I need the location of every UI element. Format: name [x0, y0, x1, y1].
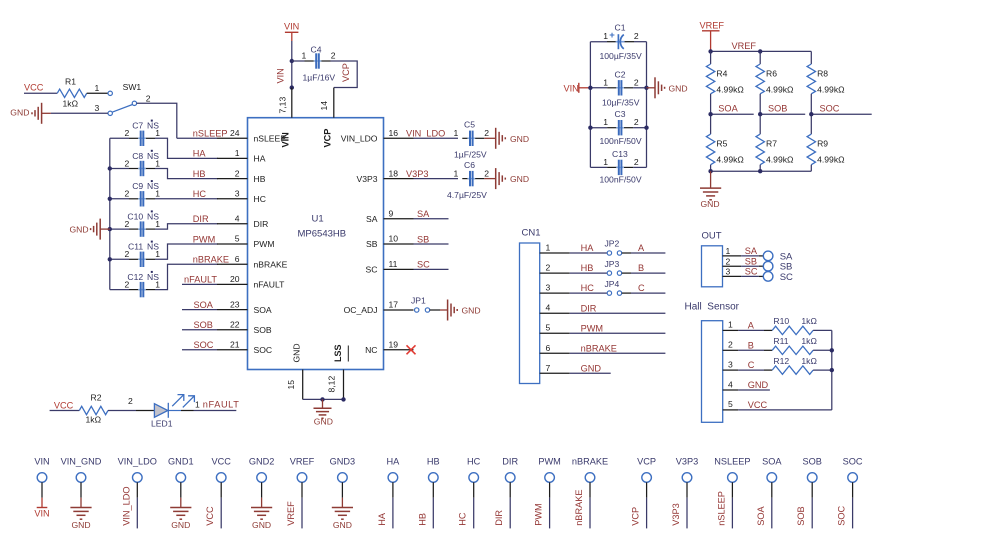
pin 21 SOC of U1: [217, 340, 272, 356]
svg-text:2: 2: [125, 249, 130, 259]
wire bottom rail: [711, 170, 812, 172]
svg-text:Hall Sensor: Hall Sensor: [685, 302, 740, 313]
svg-text:1: 1: [454, 168, 459, 178]
svg-text:VREF: VREF: [700, 21, 725, 31]
svg-text:4: 4: [546, 303, 551, 313]
connector OUT body: [702, 231, 723, 287]
svg-text:GND2: GND2: [249, 457, 275, 467]
svg-text:7,13: 7,13: [278, 97, 288, 114]
ground GND at JP1: [448, 300, 481, 321]
resistor R12: [772, 356, 813, 374]
test point GND2: [249, 457, 275, 508]
svg-text:GND: GND: [748, 380, 769, 390]
resistor R2: [79, 393, 108, 415]
svg-text:nBRAKE: nBRAKE: [581, 343, 617, 353]
wire CN1 to JP2: [570, 252, 608, 254]
svg-text:PWM: PWM: [534, 503, 544, 525]
test point VIN: [34, 457, 49, 498]
svg-text:nFAULT: nFAULT: [203, 400, 240, 410]
pin 2 of OUT: [723, 256, 742, 266]
svg-text:R4: R4: [716, 68, 727, 78]
svg-text:OC_ADJ: OC_ADJ: [344, 305, 378, 315]
connector CN1 body: [520, 228, 541, 384]
svg-text:1: 1: [726, 246, 731, 256]
svg-text:3: 3: [726, 267, 731, 277]
test point nBRAKE: [572, 457, 608, 529]
svg-text:R2: R2: [91, 393, 102, 403]
svg-text:GND: GND: [252, 520, 271, 530]
no-connect X at pin 19: [407, 345, 416, 354]
resistor R10: [772, 316, 813, 334]
pin 24 nSLEEP of U1: [217, 128, 286, 144]
svg-text:HC: HC: [193, 189, 207, 199]
capacitor C1 (polarized): [590, 22, 646, 49]
wire VREF rail: [711, 50, 812, 52]
svg-text:1: 1: [195, 399, 200, 409]
node pullup bus at R11: [830, 348, 834, 352]
svg-text:1: 1: [235, 148, 240, 158]
svg-text:SOB: SOB: [768, 104, 787, 114]
pin 5 PWM of U1: [217, 234, 275, 250]
svg-text:PWM: PWM: [581, 323, 603, 333]
svg-text:GND: GND: [10, 108, 29, 118]
power port VIN at input caps: [564, 83, 591, 94]
svg-text:GND: GND: [333, 520, 352, 530]
wire JP2 to A: [622, 252, 666, 254]
svg-text:2: 2: [634, 31, 639, 41]
svg-text:HA: HA: [193, 149, 207, 159]
svg-text:1: 1: [728, 320, 733, 330]
svg-text:HA: HA: [581, 243, 595, 253]
pin 5 of CN1: [540, 323, 570, 334]
svg-text:R1: R1: [65, 77, 76, 87]
svg-text:SA: SA: [745, 246, 758, 256]
test point V3P3: [676, 457, 698, 529]
capacitor C13: [590, 149, 646, 175]
node VIN at pin 7,13: [290, 85, 294, 89]
svg-text:SOB: SOB: [796, 506, 806, 525]
svg-text:HC: HC: [581, 283, 595, 293]
svg-text:U1: U1: [312, 214, 324, 225]
power port VIN at test point VIN: [34, 498, 49, 519]
svg-text:SC: SC: [780, 272, 793, 283]
node VIN at C4 tap: [290, 59, 294, 63]
wire R1 to SW1 pin 1: [87, 83, 108, 93]
svg-text:A: A: [748, 321, 755, 331]
svg-text:GND: GND: [70, 224, 89, 234]
wire VIN_LDO to C5: [414, 137, 459, 139]
svg-text:R6: R6: [766, 68, 777, 78]
svg-text:1kΩ: 1kΩ: [801, 356, 817, 366]
wire DIR from CN1: [570, 312, 666, 314]
svg-text:5: 5: [728, 399, 733, 409]
svg-text:HB: HB: [581, 263, 594, 273]
svg-text:1: 1: [155, 158, 160, 168]
svg-text:VCP: VCP: [637, 457, 656, 467]
svg-text:1µF/25V: 1µF/25V: [454, 150, 487, 160]
output terminal SC: [763, 272, 773, 282]
svg-text:nSLEEP: nSLEEP: [193, 129, 228, 139]
test point GND1: [168, 457, 194, 508]
capacitor C6: [454, 160, 490, 186]
svg-text:SC: SC: [417, 260, 430, 270]
wire SOA tap: [711, 113, 754, 115]
svg-text:nSLEEP: nSLEEP: [716, 491, 726, 526]
svg-text:7: 7: [546, 363, 551, 373]
svg-text:2: 2: [634, 117, 639, 127]
ground GND at C6: [496, 168, 529, 189]
pin 7,13 VIN of U1: [278, 88, 292, 148]
svg-text:GND: GND: [171, 520, 190, 530]
svg-text:2: 2: [484, 128, 489, 138]
svg-text:SB: SB: [745, 256, 757, 266]
svg-text:2: 2: [146, 94, 151, 104]
svg-text:4.99kΩ: 4.99kΩ: [766, 85, 794, 95]
wire SOC: [182, 349, 217, 351]
svg-text:C7: C7: [132, 121, 143, 131]
node VREF rail middle: [758, 49, 762, 53]
svg-text:VCC: VCC: [54, 400, 74, 410]
ground GND at test point GND3: [332, 508, 353, 531]
svg-text:SOC: SOC: [843, 457, 863, 467]
node C3 right bus: [644, 126, 648, 130]
node pullup bus at R12: [830, 368, 834, 372]
test point DIR: [502, 457, 518, 529]
svg-text:VCP: VCP: [323, 129, 333, 148]
svg-text:1: 1: [155, 249, 160, 259]
svg-text:100nF/50V: 100nF/50V: [600, 174, 642, 184]
svg-text:SOB: SOB: [802, 457, 821, 467]
svg-text:DIR: DIR: [494, 510, 504, 526]
wire VCC to R2: [50, 410, 80, 412]
wire SB to output circle: [741, 265, 763, 267]
svg-text:C8: C8: [132, 151, 143, 161]
svg-text:3: 3: [546, 283, 551, 293]
power port VIN above U1: [284, 22, 299, 42]
wire JP4 to C: [622, 292, 666, 294]
svg-text:VIN_LDO: VIN_LDO: [121, 486, 131, 525]
svg-text:9: 9: [389, 209, 394, 219]
svg-text:2: 2: [634, 157, 639, 167]
output terminal SA: [763, 251, 773, 261]
svg-text:3: 3: [235, 189, 240, 199]
svg-text:24: 24: [230, 128, 240, 138]
pin 6 of CN1: [540, 343, 570, 354]
pin 6 nBRAKE of U1: [217, 254, 288, 270]
svg-text:1: 1: [302, 51, 307, 61]
capacitor C9 (NS): [110, 180, 218, 206]
wire GND from CN1: [570, 372, 611, 374]
jumper JP2: [605, 239, 622, 256]
ground GND at C5: [496, 128, 529, 149]
svg-text:A: A: [638, 243, 645, 253]
svg-text:HB: HB: [254, 174, 266, 184]
svg-text:R8: R8: [817, 68, 828, 78]
svg-text:C13: C13: [612, 149, 628, 159]
wire JP1 to GND: [430, 309, 448, 311]
svg-text:V3P3: V3P3: [356, 174, 377, 184]
svg-text:HB: HB: [417, 513, 427, 526]
svg-text:GND3: GND3: [330, 457, 356, 467]
wire CN1 to JP3: [570, 272, 608, 274]
node at LSS corner: [341, 397, 345, 401]
svg-text:4.99kΩ: 4.99kΩ: [817, 155, 845, 165]
svg-text:nFAULT: nFAULT: [184, 275, 217, 285]
pin 5 of Hall Sensor: [723, 399, 739, 410]
node at ground tap: [320, 397, 324, 401]
wire SC: [414, 268, 449, 270]
wire right bus to GND: [647, 87, 656, 89]
svg-text:18: 18: [389, 168, 399, 178]
wire R2 to LED pin 2: [108, 396, 154, 411]
pin 7 of CN1: [540, 363, 570, 374]
pin 4 DIR of U1: [217, 214, 268, 230]
wire left capacitor bus: [109, 138, 111, 289]
wire SOA: [182, 309, 217, 311]
pin 16 VIN_LDO of U1: [341, 128, 414, 144]
svg-text:VCC: VCC: [211, 457, 231, 467]
svg-text:14: 14: [319, 101, 329, 111]
pin 1 HA of U1: [217, 148, 266, 164]
ground GND at capacitor bus: [70, 219, 110, 240]
svg-text:1µF/16V: 1µF/16V: [303, 73, 336, 83]
svg-text:LSS: LSS: [333, 344, 343, 362]
svg-text:4: 4: [235, 214, 240, 224]
svg-text:SOC: SOC: [254, 345, 273, 355]
wire SC to output circle: [741, 275, 763, 277]
test point HA: [387, 457, 401, 529]
svg-text:JP3: JP3: [605, 259, 620, 269]
pin 2 of Hall Sensor: [723, 340, 739, 351]
svg-text:R7: R7: [766, 139, 777, 149]
wire R11 to bus: [813, 349, 832, 351]
svg-text:4.99kΩ: 4.99kΩ: [817, 85, 845, 95]
capacitor C5: [454, 120, 490, 147]
svg-text:R10: R10: [773, 316, 789, 326]
svg-text:DIR: DIR: [254, 219, 269, 229]
pin 18 V3P3 of U1: [356, 168, 413, 184]
svg-text:HC: HC: [458, 512, 468, 526]
node VIN left bus: [588, 86, 592, 90]
svg-text:SA: SA: [417, 209, 430, 219]
svg-text:20: 20: [230, 274, 240, 284]
svg-text:2: 2: [125, 189, 130, 199]
svg-text:2: 2: [125, 128, 130, 138]
svg-text:SOA: SOA: [254, 305, 272, 315]
capacitor C11 (NS): [110, 241, 218, 267]
wire VCC to R1: [24, 92, 57, 94]
svg-text:C3: C3: [615, 109, 626, 119]
svg-text:3: 3: [95, 103, 100, 113]
svg-text:10: 10: [389, 234, 399, 244]
resistor R11: [772, 336, 813, 354]
pin 22 SOB of U1: [217, 319, 272, 335]
svg-text:R12: R12: [773, 356, 789, 366]
svg-text:nBRAKE: nBRAKE: [572, 457, 608, 467]
svg-text:VIN: VIN: [276, 68, 286, 83]
svg-text:GND: GND: [510, 174, 529, 184]
svg-text:5: 5: [546, 323, 551, 333]
node C3 left bus: [588, 126, 592, 130]
wire left bus of input caps: [589, 42, 591, 168]
pin 1 of Hall Sensor: [723, 320, 739, 331]
svg-text:100µF/35V: 100µF/35V: [600, 51, 642, 61]
svg-text:2: 2: [125, 158, 130, 168]
svg-text:C12: C12: [127, 272, 143, 282]
jumper JP1: [411, 296, 430, 313]
svg-text:SOA: SOA: [194, 300, 214, 310]
svg-text:1kΩ: 1kΩ: [801, 336, 817, 346]
test point SOA: [762, 457, 782, 529]
svg-text:SOC: SOC: [837, 506, 847, 526]
svg-text:B: B: [638, 263, 644, 273]
output terminal SB: [763, 261, 773, 271]
svg-text:HA: HA: [377, 512, 387, 526]
wire nFAULT: [182, 283, 217, 285]
test point SOC: [843, 457, 863, 529]
capacitor C4: [292, 45, 336, 69]
svg-text:15: 15: [286, 380, 296, 390]
pin 2 HB of U1: [217, 168, 266, 184]
pin 2 of CN1: [540, 263, 570, 274]
op-amp U1 MP6543HB body: [248, 118, 384, 370]
svg-text:1: 1: [454, 128, 459, 138]
wire C4 to VCP: [331, 61, 358, 88]
pin 9 SA of U1: [366, 209, 413, 225]
svg-text:2: 2: [728, 340, 733, 350]
svg-text:SOC: SOC: [820, 104, 840, 114]
svg-text:R5: R5: [716, 139, 727, 149]
svg-text:1: 1: [603, 157, 608, 167]
svg-text:C4: C4: [311, 45, 322, 55]
wire SA to output circle: [741, 255, 763, 257]
ground GND at input caps: [655, 77, 688, 98]
svg-text:PWM: PWM: [538, 457, 560, 467]
pin 1 of OUT: [723, 246, 742, 256]
svg-text:R9: R9: [817, 139, 828, 149]
svg-text:NC: NC: [365, 345, 377, 355]
wire LED pin 1 to nFAULT: [181, 399, 236, 410]
wire SOB: [182, 329, 217, 331]
svg-text:VCP: VCP: [341, 63, 351, 82]
svg-text:HC: HC: [467, 457, 481, 467]
svg-text:V3P3: V3P3: [671, 503, 681, 525]
svg-text:1kΩ: 1kΩ: [801, 316, 817, 326]
jumper JP4: [605, 279, 622, 296]
wire Hall to R10: [738, 329, 772, 331]
svg-text:HB: HB: [427, 457, 440, 467]
svg-text:HA: HA: [387, 457, 401, 467]
test point NSLEEP: [714, 457, 750, 529]
svg-text:HC: HC: [254, 194, 266, 204]
svg-text:8,12: 8,12: [326, 376, 336, 393]
svg-text:6: 6: [546, 343, 551, 353]
svg-text:VIN: VIN: [34, 457, 49, 467]
pin 3 of CN1: [540, 283, 570, 294]
wire SB: [414, 243, 449, 245]
svg-text:GND: GND: [462, 306, 481, 316]
capacitor C3: [590, 109, 646, 135]
svg-text:SOB: SOB: [194, 320, 213, 330]
junction on capacitor bus: [108, 197, 112, 201]
wire C5 to GND: [484, 137, 495, 139]
capacitor C7 (NS): [110, 120, 218, 159]
svg-text:SB: SB: [417, 234, 429, 244]
wire SW1 pin 2 to nSLEEP: [137, 103, 177, 138]
resistor R5: [706, 114, 727, 171]
wire nSLEEP: [177, 137, 217, 139]
capacitor C8 (NS): [110, 150, 218, 179]
svg-text:JP1: JP1: [411, 296, 426, 306]
svg-text:3: 3: [728, 359, 733, 369]
wire right bus of input caps: [646, 42, 648, 168]
svg-text:GND: GND: [581, 363, 602, 373]
wire VCC to pullup bus: [738, 409, 832, 411]
svg-text:SOA: SOA: [718, 104, 738, 114]
test point VIN_GND: [61, 457, 102, 508]
svg-text:C11: C11: [128, 242, 143, 252]
svg-text:R11: R11: [773, 336, 788, 346]
wire GND-LSS bottom: [303, 398, 344, 400]
ground GND below divider: [700, 171, 721, 209]
svg-text:VREF: VREF: [286, 501, 296, 526]
svg-text:GND1: GND1: [168, 457, 194, 467]
svg-text:4.99kΩ: 4.99kΩ: [766, 155, 794, 165]
svg-text:21: 21: [230, 340, 240, 350]
wire CN1 to JP4: [570, 292, 608, 294]
svg-text:V3P3: V3P3: [406, 169, 428, 179]
svg-text:C2: C2: [615, 69, 626, 79]
svg-text:C5: C5: [464, 120, 475, 130]
capacitor C10 (NS): [110, 210, 218, 236]
node SOA: [708, 112, 712, 116]
svg-text:V3P3: V3P3: [676, 457, 698, 467]
pin 15 GND of U1: [286, 343, 303, 399]
resistor R9: [807, 114, 828, 171]
wire GND to SW1 pin 3: [51, 112, 108, 114]
svg-text:4.99kΩ: 4.99kΩ: [716, 155, 744, 165]
svg-text:2: 2: [331, 51, 336, 61]
test point VCP: [637, 457, 656, 529]
wire R12 to bus: [813, 369, 832, 371]
resistor R6: [756, 51, 777, 114]
svg-text:1kΩ: 1kΩ: [86, 415, 102, 425]
svg-text:VCC: VCC: [748, 400, 768, 410]
junction on capacitor bus: [108, 227, 112, 231]
svg-text:DIR: DIR: [581, 303, 597, 313]
svg-text:1kΩ: 1kΩ: [63, 99, 79, 109]
ground GND below U1: [313, 399, 332, 426]
svg-text:1: 1: [603, 77, 608, 87]
connector Hall Sensor body: [685, 302, 740, 423]
svg-text:DIR: DIR: [502, 457, 518, 467]
svg-text:4: 4: [728, 379, 733, 389]
svg-text:VCC: VCC: [205, 506, 215, 526]
node VREF rail left: [708, 49, 712, 53]
svg-text:1: 1: [155, 219, 160, 229]
pin 3 of OUT: [723, 267, 742, 277]
svg-text:GND: GND: [292, 343, 302, 362]
svg-text:10µF/35V: 10µF/35V: [602, 97, 640, 107]
svg-text:SOB: SOB: [254, 325, 272, 335]
svg-text:100nF/50V: 100nF/50V: [600, 136, 642, 146]
svg-text:VIN_LDO: VIN_LDO: [341, 134, 378, 144]
junction on capacitor bus: [108, 166, 112, 170]
svg-text:VIN: VIN: [284, 22, 299, 32]
svg-text:+: +: [609, 30, 615, 41]
svg-text:HB: HB: [193, 169, 206, 179]
svg-text:22: 22: [230, 319, 240, 329]
